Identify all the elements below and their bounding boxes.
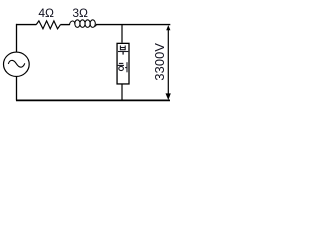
wire between resistor and inductor (61, 24, 70, 26)
inductor L 3ohm coil rings (75, 20, 95, 28)
wire top rail left segment (16, 24, 36, 26)
AC source circle (4, 52, 30, 76)
load box (bu-ha) (117, 43, 129, 84)
arrowhead down (166, 93, 171, 100)
wire top rail right segment (96, 24, 170, 26)
wire left vertical bottom (16, 76, 18, 100)
hangul HA glyph (drawn strokes) (118, 62, 127, 72)
arrowhead up (166, 25, 170, 30)
voltage arrow line 3300V (167, 28, 169, 96)
inductor L 3ohm coil: entry curl (70, 21, 76, 25)
wire load branch drop from top rail (121, 25, 123, 43)
AC sine wave (8, 60, 25, 67)
wire left vertical top (16, 24, 18, 53)
wire load box to bottom rail (121, 84, 123, 100)
svg-text:3300V: 3300V (152, 43, 167, 81)
wire bottom rail (16, 99, 170, 101)
svg-text:3Ω: 3Ω (72, 6, 88, 20)
inductor L 3ohm coil: exit curl (95, 25, 96, 26)
resistor R 4ohm zigzag (36, 21, 60, 29)
svg-text:4Ω: 4Ω (38, 6, 54, 20)
hangul BU glyph (drawn strokes) (118, 46, 128, 55)
